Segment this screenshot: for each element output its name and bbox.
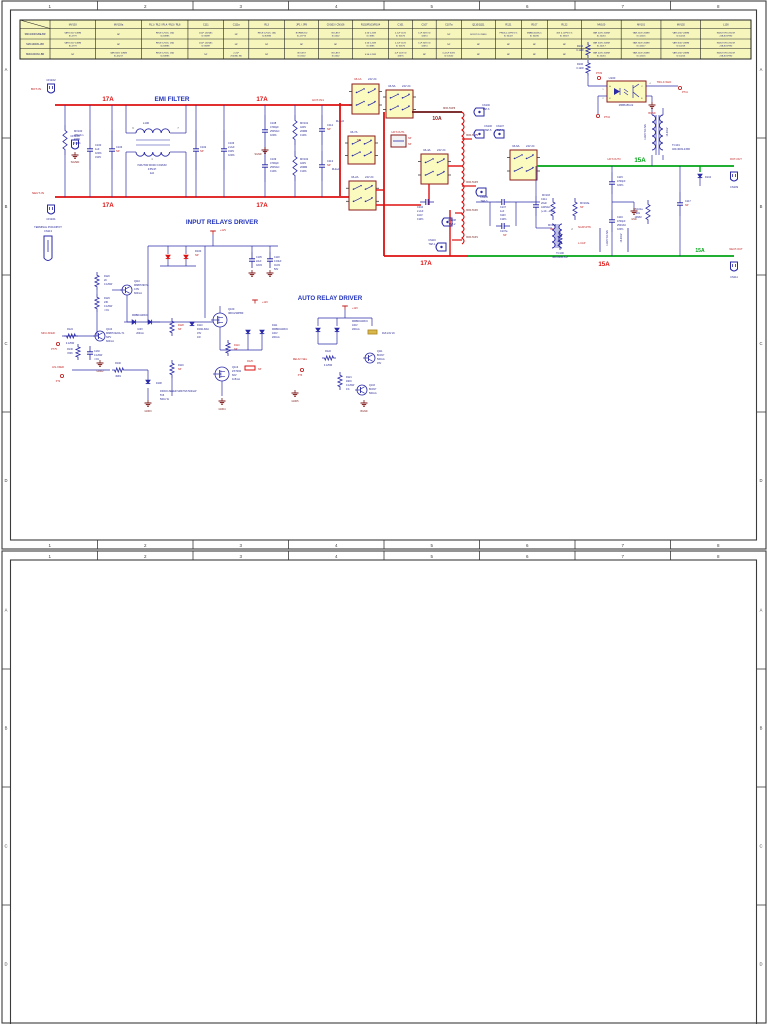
svg-text:C112: C112 [327, 123, 334, 127]
svg-text:ID 44217: ID 44217 [637, 45, 647, 47]
diode D111 pair [246, 324, 289, 339]
svg-text:C101: C101 [398, 24, 405, 27]
resistor R128 NP [170, 318, 184, 336]
svg-text:4700pF: 4700pF [617, 220, 626, 223]
svg-text:23K: 23K [104, 301, 109, 304]
svg-text:0.125W: 0.125W [66, 342, 75, 345]
svg-text:VAR 300V 20MM: VAR 300V 20MM [593, 42, 610, 45]
svg-text:RL7A: RL7A [351, 130, 358, 134]
capacitor C103 [109, 105, 123, 197]
svg-text:MMBD4148CC: MMBD4148CC [272, 328, 288, 331]
svg-text:ID-5779: ID-5779 [69, 45, 78, 47]
svg-text:ZX7002: ZX7002 [232, 369, 242, 373]
svg-text:ID-5779: ID-5779 [69, 35, 78, 37]
svg-text:R125: R125 [247, 360, 253, 363]
svg-text:0.125W: 0.125W [324, 364, 333, 367]
svg-text:XFR-TAP6: XFR-TAP6 [443, 106, 456, 110]
svg-text:500mA: 500mA [369, 392, 377, 395]
svg-text:D111: D111 [272, 324, 278, 327]
svg-text:310V: 310V [500, 214, 506, 217]
capacitor C117 [677, 166, 691, 256]
svg-text:TAP-6: TAP-6 [483, 108, 491, 111]
svg-text:SMC1000XLBE-BR: SMC1000XLBE-BR [25, 33, 46, 36]
connector CN100 TAP-6 [474, 104, 490, 116]
svg-text:NP: NP [447, 44, 451, 46]
svg-text:VAR 420V 20MM: VAR 420V 20MM [633, 32, 650, 35]
svg-text:PT09: PT09 [596, 72, 603, 75]
svg-text:310V: 310V [228, 149, 234, 153]
svg-text:SCAP-RTN: SCAP-RTN [578, 226, 591, 229]
resistor R122 [322, 350, 336, 367]
resistor R104 [576, 42, 590, 58]
svg-text:C107: C107 [421, 24, 428, 27]
svg-text:ID-84985: ID-84985 [160, 45, 170, 47]
svg-text:115mA: 115mA [232, 377, 240, 381]
ground C115 C116 join [612, 194, 638, 221]
resistor R100 [112, 362, 126, 378]
svg-text:100V: 100V [352, 324, 358, 327]
svg-text:RL6A: RL6A [513, 144, 520, 148]
capacitor C104 [417, 199, 434, 221]
svg-text:17A: 17A [256, 202, 268, 209]
svg-text:NP: NP [327, 127, 331, 131]
relay RL2A [346, 175, 379, 210]
svg-text:RL1 / RL2 / RL4 / RL5 / RL6: RL1 / RL2 / RL4 / RL5 / RL6 [149, 24, 181, 27]
svg-text:TAP-5: TAP-5 [485, 129, 493, 132]
svg-text:R119: R119 [178, 364, 184, 367]
svg-text:NP: NP [234, 348, 238, 351]
svg-text:±10%: ±10% [270, 169, 277, 173]
svg-text:D104: D104 [705, 176, 712, 179]
svg-text:MV100: MV100 [74, 129, 83, 133]
svg-text:MMBD4148CC: MMBD4148CC [352, 320, 368, 323]
ground Q104 GND2 [97, 360, 105, 373]
svg-text:CN101: CN101 [46, 217, 56, 221]
diode D104 on output [698, 174, 712, 186]
svg-text:ID-84985: ID-84985 [262, 35, 272, 37]
resistor R110 NP [226, 340, 240, 356]
svg-text:2.2uF: 2.2uF [417, 210, 424, 213]
svg-text:±10%: ±10% [417, 218, 424, 221]
svg-text:2K: 2K [104, 279, 107, 282]
svg-text:R120: R120 [104, 275, 110, 278]
capacitor C107a [476, 202, 540, 237]
svg-text:CN111: CN111 [730, 275, 738, 279]
svg-text:D: D [759, 962, 762, 967]
svg-text:ID-46217: ID-46217 [114, 55, 124, 57]
ground GND5 [292, 390, 300, 403]
svg-text:INDUTOR 0.55mH: INDUTOR 0.55mH [717, 53, 736, 55]
svg-text:JP1 / JP9: JP1 / JP9 [296, 24, 307, 27]
svg-text:C105: C105 [256, 256, 262, 259]
resistor R119 [170, 360, 184, 378]
connector CN101 NEUT-IN [32, 191, 56, 221]
svg-text:MV102: MV102 [300, 157, 309, 161]
svg-text:Q110/Q111: Q110/Q111 [472, 24, 485, 27]
svg-text:B: B [5, 726, 8, 731]
svg-text:280ohm: 280ohm [74, 133, 83, 137]
svg-text:MV100: MV100 [597, 24, 606, 27]
svg-text:15V: 15V [197, 332, 202, 335]
svg-text:MMBD4148CC: MMBD4148CC [132, 314, 148, 317]
svg-text:HOT-IN1: HOT-IN1 [312, 98, 324, 102]
svg-text:C: C [759, 844, 762, 849]
svg-text:B: B [760, 726, 763, 731]
svg-text:L100: L100 [143, 121, 150, 125]
transistor Q110 [120, 280, 149, 295]
diode pair D113 [316, 320, 369, 344]
svg-text:20MM: 20MM [300, 129, 307, 133]
svg-text:ID 36307: ID 36307 [560, 35, 570, 37]
svg-text:C108: C108 [270, 121, 277, 125]
svg-text:C109: C109 [270, 157, 277, 161]
capacitor C102 [193, 105, 207, 197]
svg-text:0.22uF 305V: 0.22uF 305V [443, 53, 456, 55]
svg-text:RL5A: RL5A [389, 84, 396, 88]
svg-text:GND3: GND3 [145, 410, 153, 413]
svg-text:15A: 15A [634, 157, 646, 164]
svg-text:R107: R107 [531, 24, 538, 27]
label LIN-XFER [52, 365, 110, 370]
svg-text:ID-6502: ID-6502 [298, 55, 307, 57]
svg-text:XFR-TAP2: XFR-TAP2 [466, 209, 479, 212]
svg-text:22uF: 22uF [256, 260, 262, 263]
svg-text:24V 2C: 24V 2C [365, 175, 374, 179]
svg-text:NP: NP [71, 54, 75, 56]
svg-text:1uF 305V ID: 1uF 305V ID [418, 33, 431, 35]
svg-text:2.2uF: 2.2uF [228, 145, 235, 149]
diode D100 pair [160, 249, 202, 266]
svg-text:NP: NP [235, 44, 239, 46]
svg-text:NP: NP [178, 328, 182, 331]
svg-text:R128: R128 [178, 324, 184, 327]
svg-text:XFR-TAP3: XFR-TAP3 [466, 181, 479, 184]
svg-text:430V: 430V [74, 137, 80, 141]
varistor MV101b [633, 166, 650, 224]
svg-text:RELE 12VDC 16A: RELE 12VDC 16A [156, 32, 174, 35]
svg-text:BC817 ID 29630: BC817 ID 29630 [470, 34, 487, 36]
svg-text:MV103: MV103 [69, 24, 78, 27]
svg-text:C103: C103 [116, 145, 123, 149]
svg-text:NP: NP [204, 54, 208, 56]
svg-text:250VAC BD: 250VAC BD [230, 54, 242, 57]
svg-text:60V: 60V [232, 373, 237, 377]
svg-text:420V: 420V [300, 161, 306, 165]
svg-text:RL2A: RL2A [352, 175, 359, 179]
capacitor C109 [262, 147, 280, 197]
svg-text:L-CAP: L-CAP [578, 242, 586, 245]
svg-text:1uF: 1uF [500, 210, 505, 213]
resistor R106 [576, 60, 590, 86]
svg-text:A: A [760, 67, 763, 72]
svg-text:17A: 17A [420, 260, 432, 267]
svg-text:PT75: PT75 [51, 348, 57, 351]
svg-text:ID-84985: ID-84985 [160, 55, 170, 57]
svg-text:BOT-IN: BOT-IN [31, 87, 41, 91]
svg-text:22A ID37990: 22A ID37990 [720, 54, 733, 57]
resistor R120 [95, 272, 113, 290]
svg-text:NP: NP [563, 54, 567, 56]
autotransformer winding XFR [462, 112, 464, 244]
svg-text:15-001V: 15-001V [620, 233, 623, 242]
svg-text:NP: NP [408, 137, 412, 140]
svg-text:RL8 24V 2C: RL8 24V 2C [382, 332, 395, 335]
svg-text:200mA: 200mA [136, 332, 144, 335]
svg-text:250VAC: 250VAC [617, 224, 626, 227]
wire 12V bus [148, 246, 278, 262]
testpoint PT10 [596, 114, 610, 119]
svg-text:250VAC: 250VAC [270, 165, 280, 169]
svg-text:+12V: +12V [352, 307, 358, 310]
svg-text:NP: NP [235, 34, 239, 36]
svg-text:ID 3885: ID 3885 [367, 35, 375, 37]
svg-text:NP: NP [258, 368, 262, 371]
svg-text:TAP-2: TAP-2 [449, 223, 457, 226]
varistor MV103a [573, 198, 590, 220]
svg-text:45V: 45V [377, 362, 382, 365]
svg-text:TC101: TC101 [672, 143, 680, 147]
svg-text:2.2uF 110V: 2.2uF 110V [395, 43, 407, 45]
svg-text:Q103: Q103 [369, 384, 376, 387]
svg-text:C117: C117 [685, 200, 691, 203]
svg-text:0.8V: 0.8V [134, 288, 139, 291]
svg-text:15A: 15A [598, 261, 610, 268]
svg-text:24V 2C: 24V 2C [526, 144, 535, 148]
svg-text:MV103a: MV103a [580, 202, 590, 205]
svg-text:ID 36897: ID 36897 [201, 35, 211, 37]
svg-text:VAR 420V 20MM: VAR 420V 20MM [633, 52, 650, 55]
svg-text:ID 44216: ID 44216 [676, 55, 686, 57]
svg-text:D: D [4, 962, 7, 967]
wires input driver mesh [97, 246, 262, 400]
svg-text:24V 2C: 24V 2C [402, 84, 411, 88]
svg-text:MV103a: MV103a [114, 24, 124, 27]
svg-text:20uF 140VAC: 20uF 140VAC [199, 32, 213, 35]
svg-text:C107a: C107a [500, 230, 508, 233]
svg-text:ID 10540: ID 10540 [444, 55, 454, 57]
svg-text:0.56 0.25W: 0.56 0.25W [365, 54, 377, 56]
svg-text:VAR 420V 20MM: VAR 420V 20MM [672, 52, 689, 55]
svg-text:Q111: Q111 [377, 350, 383, 353]
testpoint PT11 [678, 86, 688, 94]
svg-text:PT10: PT10 [604, 116, 611, 119]
svg-text:C106: C106 [228, 141, 235, 145]
svg-text:NP: NP [200, 149, 204, 153]
svg-text:NP: NP [423, 54, 427, 56]
svg-text:ID 44216: ID 44216 [637, 55, 647, 57]
resistor R130 C130 [67, 344, 103, 361]
connector CN102 BOT-IN [31, 78, 56, 93]
wire XFR-TAP6 10A feed [412, 106, 462, 122]
svg-text:110V: 110V [417, 214, 423, 217]
svg-text:10A: 10A [432, 116, 442, 122]
svg-text:24V 2C: 24V 2C [437, 148, 446, 152]
svg-text:TAP-3: TAP-3 [481, 200, 489, 203]
svg-text:NP: NP [300, 44, 304, 46]
testpoint PT75 [51, 342, 59, 351]
svg-text:±20%: ±20% [270, 133, 277, 137]
svg-text:GND: GND [631, 218, 637, 221]
svg-text:A: A [760, 608, 763, 613]
transformer TC100 [536, 224, 591, 259]
svg-text:ID 36897: ID 36897 [201, 45, 211, 47]
svg-text:CN103 / CN106: CN103 / CN106 [327, 24, 345, 27]
svg-text:C113: C113 [327, 159, 334, 163]
svg-text:NP: NP [117, 34, 121, 36]
svg-text:NP: NP [357, 138, 361, 142]
svg-text:TAP-1: TAP-1 [429, 243, 437, 246]
connector CN116 TAP-1 [428, 239, 446, 251]
svg-text:SGND: SGND [71, 160, 81, 164]
svg-text:VAR 420V 20MM: VAR 420V 20MM [593, 32, 610, 35]
svg-text:500mA: 500mA [377, 358, 385, 361]
svg-text:VAR 420V 20MM: VAR 420V 20MM [672, 32, 689, 35]
capacitor C118 [267, 252, 282, 276]
svg-text:1uF 110V ID: 1uF 110V ID [394, 53, 407, 55]
svg-text:20MM: 20MM [300, 165, 307, 169]
svg-text:IRFU230PBF: IRFU230PBF [228, 311, 244, 315]
svg-text:DI321-BAC: DI321-BAC [197, 328, 209, 331]
svg-text:±20%: ±20% [95, 151, 102, 155]
svg-text:R124: R124 [67, 328, 73, 331]
svg-text:±20%: ±20% [617, 184, 624, 187]
svg-text:0.125W: 0.125W [94, 354, 103, 357]
ground SGND1 [71, 152, 81, 164]
svg-text:D108: D108 [156, 382, 162, 385]
svg-text:CN107: CN107 [496, 125, 504, 128]
testpoint PT3 [298, 368, 304, 377]
svg-text:PT3: PT3 [298, 374, 303, 377]
svg-text:NP: NP [265, 44, 269, 46]
svg-text:2.2uF 110V: 2.2uF 110V [395, 33, 407, 35]
svg-text:460-0006-6-Z: 460-0006-6-Z [552, 255, 568, 259]
svg-text:Q104: Q104 [106, 328, 113, 331]
svg-text:R110: R110 [234, 344, 240, 347]
svg-text:PT2: PT2 [56, 380, 61, 383]
svg-text:+12V: +12V [262, 301, 268, 304]
resistor R124 [64, 328, 78, 345]
svg-text:15A: 15A [695, 248, 705, 254]
svg-text:VAR 150V 14MM: VAR 150V 14MM [64, 42, 81, 45]
svg-text:49K9: 49K9 [346, 380, 352, 383]
svg-text:±10%: ±10% [500, 218, 507, 221]
svg-text:VAR 300V 20MM: VAR 300V 20MM [672, 42, 689, 45]
svg-text:NP: NP [477, 54, 481, 56]
svg-text:30K 0.12PW 1%: 30K 0.12PW 1% [556, 33, 572, 35]
svg-text:PT11: PT11 [682, 91, 688, 94]
svg-text:HOT-OUT1: HOT-OUT1 [391, 130, 405, 134]
zener D108 [146, 380, 197, 401]
svg-text:34674: 34674 [421, 45, 428, 47]
svg-text:200mA: 200mA [352, 328, 360, 331]
svg-text:RELE 12VDC 16A: RELE 12VDC 16A [258, 32, 276, 35]
svg-text:ID-84985: ID-84985 [160, 35, 170, 37]
svg-text:C107: C107 [500, 206, 507, 209]
svg-text:NP: NP [327, 163, 331, 167]
svg-text:5V6: 5V6 [160, 394, 165, 397]
svg-text:24V 2C: 24V 2C [368, 77, 377, 81]
svg-text:B: B [5, 204, 8, 209]
resistor R129 [95, 294, 113, 312]
svg-text:C111a: C111a [233, 24, 241, 27]
svg-text:DIODO ZENER SMD 5V6 500mW: DIODO ZENER SMD 5V6 500mW [160, 390, 197, 393]
svg-text:4700pF: 4700pF [617, 180, 626, 183]
mosfet Q100 IRFU230PBF [211, 306, 244, 350]
svg-text:R130: R130 [67, 348, 73, 351]
svg-text:D: D [759, 478, 762, 483]
svg-text:MFB6156-02: MFB6156-02 [619, 104, 634, 107]
capacitor C100 [87, 105, 102, 197]
svg-text:NPV: NPV [106, 336, 111, 339]
capacitor C116 [609, 210, 626, 256]
connector CN107 TAP-4 [494, 125, 504, 138]
wire auto bus [318, 310, 372, 327]
svg-text:RL22: RL22 [561, 24, 568, 27]
svg-text:17A: 17A [102, 202, 114, 209]
svg-text:0.12W: 0.12W [576, 67, 584, 70]
svg-text:34674: 34674 [421, 35, 428, 37]
svg-text:B: B [760, 204, 763, 209]
svg-text:NP: NP [178, 368, 182, 371]
svg-text:ISO-BST: ISO-BST [331, 33, 340, 35]
svg-text:100V: 100V [272, 332, 278, 335]
svg-text:BC817: BC817 [369, 388, 377, 391]
svg-text:INDUTOR 0.55mH: INDUTOR 0.55mH [717, 33, 736, 35]
svg-text:C115: C115 [617, 176, 623, 179]
svg-text:ID 34676: ID 34676 [396, 35, 406, 37]
connector CN100 neutral [70, 134, 80, 149]
svg-text:NP: NP [447, 34, 451, 36]
svg-text:ID-6502: ID-6502 [332, 55, 341, 57]
sheet border frame [2, 1, 766, 549]
svg-text:HOT-OUT3: HOT-OUT3 [607, 157, 621, 161]
svg-text:D110: D110 [197, 324, 203, 327]
svg-text:ID 44216: ID 44216 [597, 35, 607, 37]
power +12V Q100 [252, 300, 268, 304]
svg-text:0.125W: 0.125W [104, 305, 113, 308]
svg-text:R106: R106 [577, 63, 584, 66]
transistor Q104 input [93, 328, 125, 343]
ground GND4 [219, 398, 227, 411]
connector CN105 TAP-3 [476, 188, 488, 203]
svg-text:0.56 0.25W: 0.56 0.25W [365, 43, 377, 45]
capacitor C106 [221, 105, 235, 197]
svg-text:ID 44216: ID 44216 [637, 35, 647, 37]
svg-text:Q110: Q110 [134, 280, 141, 283]
svg-text:NP: NP [116, 149, 120, 153]
component variant table [20, 20, 751, 59]
svg-text:BC817: BC817 [377, 354, 385, 357]
svg-text:NP: NP [195, 253, 199, 257]
svg-text:R121: R121 [346, 376, 352, 379]
svg-text:R104: R104 [577, 45, 584, 48]
svg-text:NP: NP [477, 44, 481, 46]
relay RL1A [349, 77, 382, 114]
relay RL4A [418, 148, 451, 184]
svg-text:VAR 150V 14MM: VAR 150V 14MM [64, 32, 81, 35]
svg-text:49K9: 49K9 [115, 375, 121, 378]
ground U100 BGND [646, 96, 656, 115]
varistor MV103 [542, 166, 555, 220]
svg-text:GND5: GND5 [292, 400, 300, 403]
svg-text:CN100: CN100 [482, 104, 490, 107]
svg-text:VAR 300V 20MM: VAR 300V 20MM [110, 52, 127, 55]
svg-text:C102: C102 [200, 145, 207, 149]
capacitor C108 [262, 105, 280, 147]
capacitor C105 [249, 252, 263, 276]
svg-text:MV101: MV101 [637, 24, 646, 27]
svg-text:34676: 34676 [397, 55, 404, 57]
